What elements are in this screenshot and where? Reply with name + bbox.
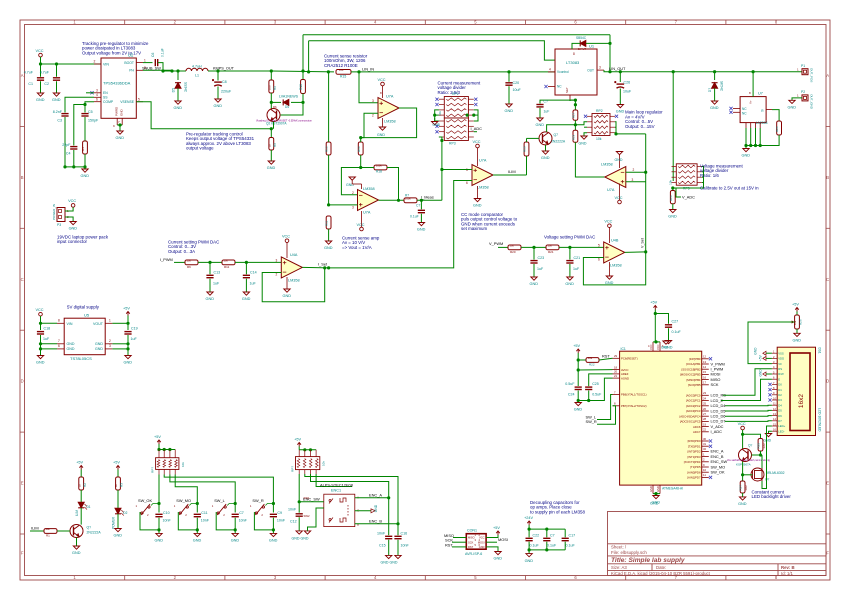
ground R23 — [670, 210, 676, 213]
wire Q7 emitter — [545, 145, 547, 151]
svg-text:GND: GND — [174, 106, 183, 110]
svg-text:SW1: SW1 — [304, 496, 311, 500]
capacitor C27 0.1uF — [665, 325, 672, 327]
wire to VIN — [41, 322, 58, 324]
vcc pin U4A — [286, 243, 288, 259]
junction — [126, 347, 129, 350]
svg-text:2: 2 — [372, 114, 374, 118]
svg-text:C12: C12 — [290, 520, 297, 524]
svg-text:39R: 39R — [744, 485, 748, 490]
ground C16 — [395, 555, 401, 558]
svg-text:15: 15 — [703, 370, 707, 374]
svg-text:30: 30 — [703, 437, 707, 441]
wire decap bottom rail — [529, 549, 565, 551]
wire — [796, 312, 798, 316]
junction — [234, 528, 237, 531]
svg-text:100: 100 — [339, 68, 344, 72]
svg-text:+5V: +5V — [792, 303, 799, 307]
wire RP2 right2 — [615, 126, 616, 128]
svg-text:1uF: 1uF — [43, 337, 50, 341]
wire R4 bottom — [84, 154, 86, 167]
svg-text:Ratio: 1/6: Ratio: 1/6 — [700, 173, 719, 178]
wire RP3 down — [441, 141, 443, 201]
svg-text:P2: P2 — [801, 90, 805, 94]
svg-text:input connector: input connector — [57, 239, 88, 244]
svg-text:[AIN0]PD6: [AIN0]PD6 — [687, 470, 701, 474]
wire — [564, 529, 566, 537]
op-amp U6A LM358 — [358, 190, 379, 211]
wire C4 bottom — [73, 150, 75, 167]
wire I_Meas — [417, 199, 442, 201]
ground C8 — [215, 99, 221, 102]
svg-text:F: F — [826, 551, 829, 556]
wire RP2 gnd — [584, 133, 587, 136]
svg-text:R25: R25 — [757, 443, 761, 449]
svg-text:4.7uH: 4.7uH — [192, 65, 202, 69]
wire cap bottom — [158, 518, 160, 534]
svg-text:33R: 33R — [762, 443, 766, 448]
svg-text:10nF: 10nF — [377, 532, 386, 536]
wire P3 gnd — [65, 217, 73, 222]
capacitor C8 220uF — [212, 79, 222, 86]
svg-text:SS: SS — [103, 96, 108, 100]
gnd pin U3A — [619, 152, 621, 169]
svg-text:PWRD: PWRD — [115, 106, 119, 116]
transistor Q2 KST2907A — [267, 109, 280, 122]
ground C7 — [232, 533, 238, 536]
junction — [644, 250, 647, 253]
svg-text:D4: D4 — [778, 403, 782, 407]
wire COMP to C5 — [85, 102, 94, 113]
svg-text:D1: D1 — [778, 388, 782, 392]
svg-text:C: C — [826, 277, 829, 282]
svg-text:+5V: +5V — [123, 307, 130, 311]
wire C20 top — [508, 72, 510, 82]
resistor pack RP1 — [444, 97, 468, 119]
no-connect — [435, 103, 438, 106]
wire C13 bottom — [209, 279, 211, 292]
power VCC backlight — [741, 426, 745, 430]
svg-text:R5: R5 — [273, 86, 277, 90]
wire SW_L — [597, 395, 613, 420]
svg-text:LM358: LM358 — [601, 163, 613, 167]
svg-text:GND: GND — [541, 156, 550, 160]
junction — [234, 502, 237, 505]
wire C7 bottom — [420, 214, 422, 223]
wire SCK — [452, 541, 466, 543]
ground U6A bias — [349, 177, 355, 180]
wire C12 top — [298, 502, 300, 513]
switch SW_OK — [141, 504, 150, 515]
LED D2 POWER — [115, 508, 121, 514]
wire sense top 1 — [303, 34, 610, 36]
wire R14 bottom — [360, 155, 362, 168]
svg-text:SB54C: SB54C — [576, 36, 587, 40]
svg-text:GND: GND — [574, 408, 583, 412]
wire pin d — [759, 128, 761, 146]
wire — [655, 494, 657, 496]
wire RP2 right3 — [615, 132, 616, 134]
svg-text:[ADC4/SDA]PC4: [ADC4/SDA]PC4 — [680, 414, 701, 418]
switch SW_L — [217, 504, 226, 515]
resistor R4 — [83, 141, 88, 154]
wire switch top — [265, 504, 273, 506]
svg-text:16x2: 16x2 — [798, 394, 805, 408]
wire U2 gnd — [117, 125, 122, 131]
wire C23 bottom — [533, 264, 535, 277]
w — [702, 171, 704, 173]
wire pin a — [745, 128, 747, 146]
resistor R18 — [374, 165, 387, 170]
svg-text:LED backlight driver: LED backlight driver — [752, 494, 792, 499]
svg-text:LT3083: LT3083 — [566, 60, 580, 65]
junction — [327, 266, 330, 269]
wire R9 top — [270, 129, 272, 138]
svg-text:2: 2 — [633, 168, 635, 172]
no-connect — [709, 445, 712, 448]
wire C20 bottom — [508, 86, 510, 104]
gnd pin U4B — [608, 262, 610, 276]
svg-text:AGND: AGND — [621, 376, 629, 380]
junction — [608, 70, 611, 73]
potentiometer R26 — [795, 315, 800, 329]
wire AGND — [589, 378, 613, 400]
svg-text:D: D — [21, 379, 24, 384]
svg-text:1: 1 — [109, 319, 111, 323]
ground LED- — [765, 434, 771, 437]
resistor R11 — [222, 260, 235, 265]
junction — [741, 433, 744, 436]
junction — [528, 528, 531, 531]
wire SET — [570, 99, 575, 102]
svg-text:SW_MO: SW_MO — [176, 498, 191, 503]
svg-text:220uF: 220uF — [221, 90, 232, 94]
pin stubs LM334 — [733, 108, 772, 128]
junction — [39, 342, 42, 345]
ground C23 — [531, 277, 537, 280]
junction — [587, 399, 590, 402]
svg-text:7: 7 — [58, 339, 60, 343]
capacitor C4 22pF — [70, 147, 77, 149]
wire +5V MCU — [654, 310, 656, 342]
svg-text:VCC: VCC — [604, 220, 612, 224]
wire switch top — [189, 504, 197, 506]
svg-text:GND: GND — [267, 166, 276, 170]
svg-text:Voltage setting PWM DAC: Voltage setting PWM DAC — [544, 234, 595, 239]
svg-text:BY U7: BY U7 — [578, 47, 586, 51]
junction — [574, 99, 577, 102]
wire — [742, 430, 744, 449]
no-connect LT3083 — [544, 85, 547, 88]
svg-text:NC: NC — [557, 85, 562, 89]
connector P1 — [802, 69, 808, 75]
wire +in U6A — [329, 204, 358, 206]
wire to SW_L — [170, 475, 235, 504]
wire U4A feedback — [262, 268, 325, 302]
svg-text:R21: R21 — [548, 250, 554, 254]
svg-text:10nF: 10nF — [239, 519, 248, 523]
svg-text:25: 25 — [703, 402, 707, 406]
ground C21 — [567, 277, 573, 280]
svg-text:[SCK]PB5: [SCK]PB5 — [688, 383, 701, 387]
ground R11 — [325, 241, 331, 244]
svg-text:F: F — [21, 551, 24, 556]
svg-text:VIN: VIN — [67, 322, 73, 326]
svg-text:[RXD]PD0: [RXD]PD0 — [688, 439, 701, 443]
wire +5V rst chain — [577, 353, 579, 386]
wire R18 right to output — [387, 168, 399, 201]
no-connect — [709, 357, 712, 360]
wire R25 top — [743, 434, 761, 438]
svg-text:GND: GND — [81, 174, 90, 178]
svg-text:2: 2 — [352, 191, 354, 195]
svg-text:PB7(XTAL2/TOSC2): PB7(XTAL2/TOSC2) — [621, 404, 647, 408]
svg-text:GND: GND — [473, 204, 482, 208]
svg-text:C22: C22 — [533, 534, 540, 538]
ground R9 — [268, 161, 274, 164]
junction — [327, 70, 330, 73]
svg-text:GND: GND — [67, 347, 75, 351]
svg-text:10k: 10k — [322, 461, 326, 466]
junction — [545, 548, 548, 551]
w — [702, 182, 704, 184]
switch SW_R — [255, 504, 264, 515]
svg-text:GND: GND — [52, 98, 61, 102]
power +5V POWER LED — [116, 466, 120, 470]
wire I_PWM — [174, 261, 185, 263]
wire P2 gnd — [792, 98, 802, 100]
junction — [359, 136, 362, 139]
wire LM334 V+ — [752, 72, 754, 97]
wire LIN_OUT rail — [604, 70, 802, 72]
resistor R16 — [524, 142, 529, 156]
wire cap top — [196, 504, 198, 513]
junction — [168, 448, 171, 451]
wire D5 bottom — [177, 88, 179, 101]
junction — [713, 70, 716, 73]
wire gnd2 — [112, 343, 128, 345]
LCD pins — [772, 353, 777, 431]
junction — [301, 101, 304, 104]
svg-text:KiCad E.D.A. kicad (2015-04-1: KiCad E.D.A. kicad (2015-04-10 BZR 5591)… — [611, 571, 711, 576]
junction — [420, 199, 423, 202]
wire R13 top — [328, 72, 330, 142]
svg-text:C23: C23 — [538, 256, 545, 260]
junction — [577, 368, 580, 371]
svg-text:R19: R19 — [571, 134, 575, 140]
svg-text:6: 6 — [58, 344, 60, 348]
ground Q1 — [73, 546, 79, 549]
svg-text:R16: R16 — [523, 146, 527, 152]
wire C12 bottom — [298, 517, 300, 531]
wire C24 bottom — [577, 391, 579, 401]
svg-text:5: 5 — [598, 243, 600, 247]
svg-text:8: 8 — [58, 319, 60, 323]
wire to U4B — [559, 246, 604, 248]
svg-text:+5V: +5V — [294, 438, 301, 442]
svg-text:CON1: CON1 — [467, 529, 477, 533]
capacitor C18 1uF — [37, 332, 44, 334]
wire V_ADC tap — [676, 188, 681, 197]
capacitor C7 1uF — [536, 105, 543, 107]
svg-text:B: B — [21, 175, 24, 180]
connector P2 — [802, 95, 808, 101]
microcontroller IC1 ATMEGA48 — [620, 351, 702, 485]
svg-text:R14: R14 — [357, 146, 361, 152]
wire R9 bottom — [270, 150, 272, 161]
svg-text:GND: GND — [193, 539, 202, 543]
ground C13 — [207, 292, 213, 295]
svg-text:3: 3 — [372, 99, 374, 103]
svg-text:E: E — [21, 481, 24, 486]
ground encoder — [304, 531, 310, 534]
svg-text:I_ADC: I_ADC — [471, 126, 483, 131]
svg-text:output voltage: output voltage — [186, 146, 214, 151]
svg-text:10nF: 10nF — [163, 519, 172, 523]
resistor R3 — [116, 477, 121, 490]
resistor R1 — [44, 529, 57, 534]
junction — [672, 70, 675, 73]
svg-text:10uF: 10uF — [513, 88, 522, 92]
svg-text:Rev: B: Rev: B — [781, 565, 795, 570]
resistor R22 — [586, 358, 599, 363]
wire SW_R — [597, 406, 616, 424]
vcc pin U6A — [361, 211, 363, 227]
ground ISP — [495, 552, 501, 555]
capacitor C1 — [37, 78, 44, 80]
ground C27 — [665, 341, 671, 344]
svg-text:AVR-ISP-6: AVR-ISP-6 — [465, 552, 482, 556]
wire RP gnd left — [435, 110, 439, 121]
capacitor C11 — [194, 514, 201, 516]
junction — [63, 165, 66, 168]
ground U5 left — [37, 356, 43, 359]
capacitor C6 — [155, 59, 157, 66]
svg-text:+5V: +5V — [154, 435, 161, 439]
power VCC U6A — [360, 227, 364, 231]
vcc pin U7B — [477, 148, 479, 166]
resistor R25 — [758, 439, 763, 452]
power +5V ISP — [496, 531, 500, 535]
wire C25 bottom — [588, 391, 590, 401]
svg-text:0.5uF: 0.5uF — [592, 392, 602, 396]
svg-text:VSENSE: VSENSE — [120, 100, 134, 104]
svg-text:VCC: VCC — [473, 140, 481, 144]
wire MISO — [453, 537, 466, 539]
frame row labels — [20, 126, 830, 534]
ground R26 — [794, 333, 800, 336]
svg-text:R20: R20 — [510, 250, 516, 254]
svg-text:ALPS-STEC12E08: ALPS-STEC12E08 — [320, 482, 353, 487]
svg-text:GND: GND — [155, 539, 164, 543]
svg-text:[INT0]PD2: [INT0]PD2 — [687, 450, 701, 454]
wire gnd6 — [41, 348, 58, 350]
resistor R7 — [404, 198, 417, 203]
svg-text:C?: C? — [544, 100, 548, 104]
wire RP2 right to VSet — [615, 122, 646, 134]
junction — [654, 312, 657, 315]
svg-text:V_ADC: V_ADC — [682, 195, 695, 200]
no-connect — [709, 439, 712, 442]
svg-text:27: 27 — [703, 412, 707, 416]
svg-text:GND: GND — [116, 136, 125, 140]
wire C19 bottom — [127, 335, 129, 356]
svg-text:KSP2907A: KSP2907A — [736, 463, 751, 467]
wire — [546, 529, 548, 537]
junction — [309, 448, 312, 451]
wire RP2 left2 — [584, 126, 587, 128]
svg-text:C10: C10 — [163, 511, 170, 515]
wire gnd7 — [41, 343, 58, 345]
svg-text:C8: C8 — [222, 80, 227, 84]
svg-text:SW2: SW2 — [304, 514, 311, 518]
wire P3 vcc — [65, 207, 73, 211]
vcc pin U4B — [608, 228, 610, 244]
wire AVCC — [578, 369, 612, 371]
svg-text:GND GND: GND GND — [292, 536, 309, 540]
svg-text:GND: GND — [36, 361, 45, 365]
resistor pack RP4 — [159, 450, 175, 475]
svg-text:10k: 10k — [46, 527, 51, 531]
svg-text:VCC: VCC — [36, 308, 44, 312]
svg-text:6: 6 — [96, 97, 98, 101]
svg-text:13: 13 — [703, 360, 707, 364]
svg-text:RS: RS — [778, 367, 782, 371]
svg-text:C6: C6 — [151, 53, 155, 57]
wire RP2 left to R17 — [575, 122, 587, 125]
svg-text:6: 6 — [466, 181, 468, 185]
svg-text:Vcontrol: Vcontrol — [557, 70, 569, 74]
resistor R10 — [301, 80, 306, 94]
resistor pack RP5 — [676, 164, 697, 185]
svg-text:C20: C20 — [513, 81, 520, 85]
resistor R23 — [670, 191, 675, 204]
svg-text:BOOT: BOOT — [124, 61, 134, 65]
wire — [528, 542, 530, 550]
junction — [644, 171, 647, 174]
svg-text:Q?: Q? — [748, 444, 752, 448]
capacitor C9 — [270, 514, 277, 516]
no-connect — [729, 111, 732, 114]
wire gnd3 — [112, 348, 128, 350]
svg-text:VDD: VDD — [778, 357, 784, 361]
wire C13 top — [209, 262, 211, 274]
ground C7 — [418, 223, 424, 226]
wire VCC down — [40, 316, 42, 330]
svg-text:ILIM: ILIM — [31, 525, 39, 530]
svg-text:D5: D5 — [172, 88, 176, 92]
power +5V MCU — [654, 306, 658, 310]
capacitor C7 0.1uF — [418, 210, 425, 212]
capacitor C14 1uF — [243, 275, 250, 277]
svg-text:10uF: 10uF — [623, 90, 632, 94]
gnd pin U4A — [286, 277, 288, 289]
ground D3 — [711, 101, 717, 104]
wire cap bottom — [272, 518, 274, 534]
svg-text:Title: Simple lab supply: Title: Simple lab supply — [611, 557, 685, 564]
wire C16 top — [397, 524, 399, 535]
ground C2 — [53, 93, 59, 96]
junction — [359, 166, 362, 169]
wire to ENC_A — [311, 474, 389, 498]
svg-text:GND: GND — [579, 142, 587, 146]
wire C18 bottom — [40, 335, 42, 356]
svg-text:to supply pin of each LM358: to supply pin of each LM358 — [530, 509, 585, 514]
power VCC U3A — [618, 200, 622, 204]
svg-text:0.1uF: 0.1uF — [672, 330, 682, 334]
resistor R11 — [326, 216, 331, 229]
junction — [170, 69, 173, 72]
